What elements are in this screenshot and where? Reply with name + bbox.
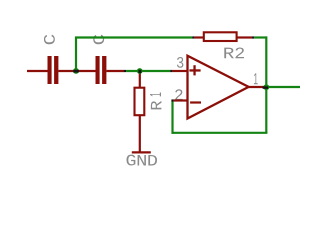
resistor R1 top wire (red) (139, 71, 141, 88)
R2 pin 1 end joint (black) (192, 36, 194, 38)
ground bar (132, 151, 151, 153)
C2 pin 2 end joint (black) (124, 70, 126, 72)
op-amp U1 pin 3 stub (red) (172, 70, 188, 72)
op-amp plus mark (189, 65, 200, 75)
label R1: 1 (150, 93, 161, 97)
op-amp U1 pin 1 stub (red) (245, 86, 265, 88)
junction node B dot (green) (137, 68, 143, 74)
resistor R2 body (204, 32, 237, 41)
output junction dot (green) (263, 84, 269, 90)
junction node A dot (green) (73, 68, 79, 74)
node A pin joint (black, C1/C2 pins) (73, 70, 79, 73)
resistor R2 left lead (red) (194, 36, 204, 38)
label GND: N (138, 155, 146, 166)
wire C1 to C2 (red) (58, 70, 95, 72)
op-amp pin 2 end joint (black) (171, 99, 173, 101)
capacitor C1 plates (48, 56, 59, 84)
resistor R1 bottom wire (red) (139, 115, 141, 152)
label C (capacitor C1) (44, 35, 55, 45)
labels (gray) (44, 35, 258, 166)
wire R2 to right rail (green) (254, 36, 266, 38)
wire input left (red) (27, 70, 48, 72)
feedback riser (green) (171, 101, 173, 134)
right rail vertical (green) (265, 36, 267, 132)
label GND: D (148, 155, 157, 166)
label R1: R (151, 101, 162, 109)
op-amp U1 triangle (188, 56, 249, 119)
op-amp U1 pin 2 stub (red) (174, 99, 188, 101)
op-amp pin 1 end joint (black) (263, 86, 269, 88)
label R2: R (224, 48, 234, 59)
output wire right (green) (266, 86, 300, 88)
R2 pin 2 end joint (black) (252, 36, 254, 38)
resistor R1 body (135, 88, 145, 116)
wire C2 right pin (red) (106, 70, 124, 72)
op-amp pin 3 end joint (black) (170, 70, 172, 72)
node B pin joint (black, R1 pin 1) (138, 70, 141, 73)
label GND: G (126, 155, 135, 166)
pin number 3 (177, 57, 183, 68)
pin number 1 (254, 73, 258, 84)
wire riser and top run (green) (76, 38, 192, 72)
label R2: 2 (235, 47, 244, 58)
capacitor C2 plates (96, 56, 107, 84)
wire node B (green) (126, 70, 170, 72)
label C (capacitor C2) (93, 35, 104, 45)
resistor R2 right lead (red) (237, 36, 252, 38)
op-amp minus mark (190, 101, 201, 103)
feedback bottom wire (green) (173, 132, 268, 134)
pin number 2 (175, 89, 182, 100)
